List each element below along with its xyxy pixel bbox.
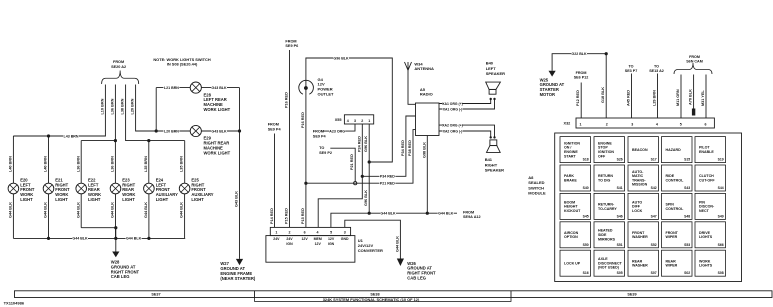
svg-text:BEACON: BEACON <box>632 148 648 152</box>
svg-text:G44 BLK: G44 BLK <box>126 237 142 241</box>
svg-text:L29 BRN: L29 BRN <box>653 90 657 106</box>
wire G43 BLK from lamp E28 <box>201 87 239 89</box>
svg-text:SE13 A2: SE13 A2 <box>649 69 664 73</box>
svg-text:LIGHTS: LIGHTS <box>699 264 713 268</box>
converter U1 body <box>266 236 355 263</box>
wire below lamp E20 <box>12 194 14 239</box>
switch S42 AUTO- MATIC TRANS- MISSION <box>628 165 659 191</box>
svg-text:L36 BRN: L36 BRN <box>111 156 115 172</box>
svg-text:FROM: FROM <box>313 130 324 134</box>
svg-text:SE9 P2: SE9 P2 <box>319 151 332 155</box>
svg-text:G18 BLK: G18 BLK <box>601 87 605 103</box>
svg-text:G44 BLK: G44 BLK <box>180 202 184 218</box>
switch S41 RETURN TO DIG <box>594 165 625 191</box>
svg-text:LOCK: LOCK <box>632 209 643 213</box>
svg-text:X55: X55 <box>335 118 342 122</box>
svg-text:P34 RED: P34 RED <box>401 140 405 156</box>
svg-text:L20 BRN: L20 BRN <box>131 98 135 114</box>
wire M31 YEL to X32 pin 6 <box>705 75 707 119</box>
svg-text:B41: B41 <box>485 157 493 162</box>
brace from S6N CAM harness <box>674 63 712 74</box>
svg-text:KICKOUT: KICKOUT <box>564 209 581 213</box>
lamp E25 RIGHT FRONT AUXILIARY LIGHT <box>179 183 190 194</box>
wire bus L43 BRN <box>13 135 105 137</box>
label A23 ORG <box>329 129 345 133</box>
section bar divider 2 <box>510 291 512 298</box>
svg-text:SE6 P12: SE6 P12 <box>574 75 589 79</box>
junction dot E22/E23 grounds <box>114 226 117 229</box>
svg-text:LEFT: LEFT <box>486 66 497 71</box>
wire L20 BRN (brace wire 4 feed to rear machine lights) <box>136 85 157 132</box>
svg-text:S50: S50 <box>583 243 589 247</box>
svg-text:L21 BRN: L21 BRN <box>164 86 179 90</box>
svg-text:XA2 ORG (+): XA2 ORG (+) <box>442 123 462 127</box>
svg-text:CUT-OFF: CUT-OFF <box>699 178 715 182</box>
svg-text:M31 YEL: M31 YEL <box>701 90 705 106</box>
svg-text:1: 1 <box>275 230 277 234</box>
svg-text:ANTENNA: ANTENNA <box>414 66 434 71</box>
svg-text:S17: S17 <box>651 158 657 162</box>
switch S07 REAR WASHER <box>628 250 659 276</box>
svg-text:XA1 ORG (-): XA1 ORG (-) <box>443 107 463 111</box>
svg-text:S45: S45 <box>583 214 589 218</box>
shield termination blob <box>692 109 695 116</box>
svg-text:G96 BLK: G96 BLK <box>364 136 368 152</box>
svg-text:P16 RED: P16 RED <box>301 112 305 128</box>
svg-text:X32: X32 <box>564 122 571 126</box>
svg-text:SE37: SE37 <box>151 293 160 297</box>
svg-text:SE39: SE39 <box>627 293 636 297</box>
junction dot G96 at G44 bus <box>368 212 371 215</box>
switch S08 WORK LIGHTS <box>695 250 726 276</box>
svg-text:S40: S40 <box>583 186 589 190</box>
svg-text:G22 BLK: G22 BLK <box>571 52 587 56</box>
connector X32 <box>576 118 714 128</box>
switch S02 REAR WIPER <box>662 250 693 276</box>
svg-text:S26: S26 <box>617 158 623 162</box>
brace from SE20 A2 harness <box>102 71 139 85</box>
svg-text:WASHER: WASHER <box>632 235 648 239</box>
svg-text:G96 BLK: G96 BLK <box>333 56 349 60</box>
svg-text:CONTROL: CONTROL <box>666 207 685 211</box>
svg-text:SE9A A12: SE9A A12 <box>463 215 481 219</box>
wire below lamp E23 <box>115 194 117 239</box>
svg-text:S05: S05 <box>617 271 623 275</box>
svg-text:L20 BRN: L20 BRN <box>164 129 179 133</box>
svg-text:CAB LEG: CAB LEG <box>407 276 426 281</box>
svg-text:SE20 A2: SE20 A2 <box>111 65 126 69</box>
svg-text:ENABLE: ENABLE <box>699 150 714 154</box>
svg-text:S51: S51 <box>617 243 623 247</box>
wire P34 RED radio to X55 branch <box>362 116 415 176</box>
svg-text:IN S08 (SE20.44): IN S08 (SE20.44) <box>167 62 198 67</box>
wire L21 BRN riser <box>155 88 157 131</box>
wire A23 ORG from X55 pin 3 <box>323 124 355 131</box>
label XA1 ORG (-) <box>443 107 463 111</box>
svg-text:SPEAKER: SPEAKER <box>485 168 504 173</box>
svg-text:L36 BRN: L36 BRN <box>110 98 114 114</box>
splice open circle <box>354 182 357 185</box>
converter U1 pin strip <box>270 227 350 235</box>
wire XA1 ORG (+) to left speaker <box>439 100 491 104</box>
svg-text:S53: S53 <box>684 243 690 247</box>
label XA2 ORG (+) <box>443 123 463 127</box>
svg-text:BRAKE: BRAKE <box>564 178 577 182</box>
svg-text:P21 RED: P21 RED <box>350 154 354 170</box>
svg-text:2: 2 <box>361 119 363 123</box>
wire lamp E20 feed <box>12 136 14 183</box>
svg-text:P38 RED: P38 RED <box>408 140 412 156</box>
wire L36 BRN (brace wire 2 to lamp E23) <box>114 85 116 184</box>
svg-text:OFF: OFF <box>598 154 606 158</box>
svg-text:S46: S46 <box>617 214 623 218</box>
junction dot L20/L21 <box>155 129 158 132</box>
svg-text:G44 BLK: G44 BLK <box>9 202 13 218</box>
switch S18 IGNITION ON / ENGINE START <box>560 137 591 163</box>
svg-text:S66: S66 <box>718 243 724 247</box>
switch S19 PILOT ENABLE <box>695 137 726 163</box>
switch S17 BEACON <box>628 137 659 163</box>
svg-text:START: START <box>564 154 577 158</box>
svg-text:LIGHT: LIGHT <box>55 197 68 202</box>
wire below lamp E22 <box>80 194 82 228</box>
wire bus 2 (lamps E22/E23) <box>81 140 115 142</box>
svg-text:CONVERTER: CONVERTER <box>358 248 383 253</box>
section bar <box>15 291 773 298</box>
junction dot G96 loop <box>368 160 371 163</box>
svg-text:FROM: FROM <box>268 123 279 127</box>
junction dot bus2 at wire L36 <box>114 139 117 142</box>
svg-text:MIRRORS: MIRRORS <box>598 237 616 241</box>
svg-text:G44 BLK: G44 BLK <box>395 236 399 252</box>
lamp E20 LEFT FRONT WORK LIGHT <box>8 183 19 194</box>
svg-text:G44 BLK: G44 BLK <box>111 202 115 218</box>
svg-text:FROM: FROM <box>576 71 587 75</box>
wire L10 BRN (brace wire 1 to bus L43) <box>13 85 105 137</box>
wire P24 RED from X55 pin 2 to converter pin 4 <box>318 124 362 227</box>
junction dot P24/P34 <box>361 175 364 178</box>
wire P38 RED radio to splice to P16 node <box>306 130 416 184</box>
svg-text:S15: S15 <box>684 158 690 162</box>
wire G44 BLK bus <box>331 213 457 227</box>
svg-text:CAB LEG: CAB LEG <box>111 274 130 279</box>
svg-text:XA1 ORG (+): XA1 ORG (+) <box>442 102 462 106</box>
label XA1 ORG (+) <box>443 101 463 105</box>
wire ground drop to W28 <box>115 228 117 252</box>
ground W25 <box>549 71 556 77</box>
switch S52 FRONT WASHER <box>628 222 659 248</box>
switch S66 DRIVE LIGHTS <box>695 222 726 248</box>
wire G22 BLK to ground W25 <box>552 54 606 71</box>
radio A5 body <box>416 103 440 136</box>
label G44 BLK on ground bus right <box>126 236 142 240</box>
svg-text:L35 BRN: L35 BRN <box>144 156 148 172</box>
svg-text:OUTLET: OUTLET <box>318 92 335 97</box>
speaker B41 <box>490 140 497 146</box>
switch S49 PIN DISCON- NECT <box>695 193 726 219</box>
svg-text:LIGHT: LIGHT <box>191 197 204 202</box>
label G44 BLK bus right <box>438 211 454 215</box>
svg-text:G98 BLK: G98 BLK <box>422 142 426 158</box>
svg-text:12V: 12V <box>328 237 335 241</box>
wire L21 BRN to lamp E28 <box>156 87 190 89</box>
svg-text:WIPER: WIPER <box>666 235 678 239</box>
junction dot ground bus lamp E24 <box>147 237 150 240</box>
wire below lamp E21 <box>48 194 50 239</box>
wire P16 RED outlet to converter pin 6 <box>305 88 307 227</box>
svg-text:G44 BLK: G44 BLK <box>76 202 80 218</box>
svg-text:L40 BRN: L40 BRN <box>9 156 13 172</box>
svg-text:FROM: FROM <box>113 60 124 64</box>
wire G43 BLK down to ground W27 <box>239 88 241 259</box>
svg-text:S44: S44 <box>718 186 724 190</box>
svg-text:P24 RED: P24 RED <box>357 136 361 152</box>
svg-text:S6N CAM: S6N CAM <box>686 59 703 63</box>
svg-text:1: 1 <box>580 122 582 126</box>
svg-text:SE3 P7: SE3 P7 <box>625 69 638 73</box>
svg-text:NECT: NECT <box>699 209 710 213</box>
svg-text:WORK LIGHT: WORK LIGHT <box>204 107 231 112</box>
wire bus G44 BLK (lamp grounds) <box>13 237 185 239</box>
svg-text:3: 3 <box>631 122 633 126</box>
svg-text:S08: S08 <box>718 271 724 275</box>
svg-text:6: 6 <box>304 230 306 234</box>
svg-text:2: 2 <box>606 122 608 126</box>
wire lamp E21 feed <box>48 136 50 183</box>
lamp E22 LEFT REAR WORK LIGHT <box>76 183 87 194</box>
svg-text:S19: S19 <box>718 158 724 162</box>
svg-text:SE9 P4: SE9 P4 <box>268 128 282 132</box>
svg-text:2: 2 <box>289 230 291 234</box>
label G22 BLK <box>571 52 587 56</box>
svg-text:S02: S02 <box>684 271 690 275</box>
label G96 BLK top <box>333 56 349 60</box>
lamp E29 RIGHT REAR MACHINE WORK LIGHT <box>190 125 201 136</box>
svg-text:A23 ORG: A23 ORG <box>329 129 345 133</box>
svg-text:G44 BLK: G44 BLK <box>72 237 88 241</box>
junction dot bus3 at lamp E24 drop <box>147 139 150 142</box>
svg-text:G43 BLK: G43 BLK <box>211 129 227 133</box>
switch module A8 body <box>555 133 742 282</box>
wire A70 BLK shield drain <box>693 75 695 109</box>
wire lamp E22 ground jog <box>81 227 116 229</box>
switch S53 FRONT WIPER <box>662 222 693 248</box>
wire P12 RED to X32 pin 1 <box>580 83 582 119</box>
wire L38 BRN (brace wire 3 to bus) <box>126 85 149 141</box>
svg-text:G44 BLK: G44 BLK <box>438 212 454 216</box>
svg-text:(NOT USED): (NOT USED) <box>598 266 620 270</box>
junction dot bus L43 at lamp E21 drop <box>47 134 50 137</box>
svg-text:WIPER: WIPER <box>666 264 678 268</box>
svg-text:GND: GND <box>341 237 349 241</box>
svg-text:5: 5 <box>330 230 332 234</box>
wire XA2 ORG (+) to right speaker <box>439 125 495 136</box>
svg-text:L40 BRN: L40 BRN <box>44 156 48 172</box>
svg-text:P12 RED: P12 RED <box>576 90 580 106</box>
junction dot G22/G18 <box>605 52 608 55</box>
svg-text:S43: S43 <box>684 186 690 190</box>
label G43 BLK E29 <box>211 129 227 133</box>
svg-text:TX1104986: TX1104986 <box>4 301 25 306</box>
svg-text:L43 BRN: L43 BRN <box>64 134 79 138</box>
lamp E23 RIGHT REAR WORK LIGHT <box>110 183 121 194</box>
svg-text:TO: TO <box>319 146 324 150</box>
svg-text:IGN: IGN <box>328 242 335 246</box>
svg-text:P34 RED: P34 RED <box>380 175 395 179</box>
switch S47 AUTO DIFF LOCK <box>628 193 659 219</box>
svg-text:FROM: FROM <box>689 55 700 59</box>
svg-text:3: 3 <box>344 230 346 234</box>
svg-text:P21 RED: P21 RED <box>380 182 395 186</box>
svg-text:FROM: FROM <box>285 39 296 43</box>
svg-text:S16: S16 <box>583 271 589 275</box>
wire XA2 ORG (-) to right speaker <box>439 131 491 137</box>
wire lamp E24 feed <box>148 141 150 184</box>
title bar <box>255 298 512 302</box>
switch S26 ENGINE STOP IGNITION OFF <box>594 137 625 163</box>
terminal dots right speaker <box>490 136 492 138</box>
svg-text:IGN: IGN <box>286 242 293 246</box>
svg-text:OPTION: OPTION <box>564 235 578 239</box>
ground W28 <box>112 252 119 258</box>
section bar divider 1 <box>254 291 256 298</box>
wire P16 RED from SE9 P6 to converter pin 2 <box>289 50 291 227</box>
label G44 BLK on ground bus left <box>72 236 88 240</box>
svg-text:6: 6 <box>705 122 707 126</box>
svg-text:SE9 P4: SE9 P4 <box>313 135 327 139</box>
svg-text:G44 BLK: G44 BLK <box>144 202 148 218</box>
wire lamp E25 feed <box>184 141 186 184</box>
svg-text:LIGHT: LIGHT <box>88 197 101 202</box>
power outlet G4 <box>299 80 314 94</box>
wire P14 RED to converter pin 1 <box>274 134 276 228</box>
wire L20 BRN to lamp E29 <box>156 130 190 132</box>
wire G18 BLK to X32 pin 2 <box>605 54 607 118</box>
svg-text:G43 BLK: G43 BLK <box>235 191 239 207</box>
svg-text:XA2 ORG (-): XA2 ORG (-) <box>443 129 463 133</box>
svg-text:P15 RED: P15 RED <box>301 208 305 224</box>
label L20 BRN E29 <box>163 129 179 133</box>
svg-text:12V: 12V <box>315 242 322 246</box>
ground W27 <box>236 259 243 265</box>
svg-text:S07: S07 <box>651 271 657 275</box>
svg-text:L38 BRN: L38 BRN <box>121 98 125 114</box>
wire XA1 ORG (-) to left speaker <box>439 100 495 109</box>
svg-text:RADIO: RADIO <box>420 92 433 97</box>
svg-text:(NEAR STARTER): (NEAR STARTER) <box>220 276 256 281</box>
svg-text:MISSION: MISSION <box>632 183 648 187</box>
svg-text:P14 RED: P14 RED <box>270 208 274 224</box>
svg-text:A45 RED: A45 RED <box>627 90 631 106</box>
junction dot ground bus lamp E21 <box>47 237 50 240</box>
svg-text:S52: S52 <box>651 243 657 247</box>
switch S16 LOCK UP <box>560 250 591 276</box>
terminal dots left speaker <box>490 98 492 100</box>
switch S51 HEATED SIDE MIRRORS <box>594 222 625 248</box>
wire below lamp E24 <box>148 194 150 239</box>
wire L29 BRN to X32 pin 4 <box>657 74 659 119</box>
svg-text:3: 3 <box>354 119 356 123</box>
svg-text:4: 4 <box>347 119 349 123</box>
wire G98 BLK radio ground <box>426 136 428 214</box>
svg-text:L10 BRN: L10 BRN <box>100 98 104 114</box>
switch S40 PARK BRAKE <box>560 165 591 191</box>
lamp E21 RIGHT FRONT WORK LIGHT <box>43 183 54 194</box>
svg-text:4: 4 <box>656 122 658 126</box>
svg-text:S47: S47 <box>651 214 657 218</box>
svg-text:12V: 12V <box>301 237 308 241</box>
svg-text:HAZARD: HAZARD <box>666 148 682 152</box>
label XA2 ORG (-) <box>443 129 463 133</box>
ground W26 <box>397 259 404 267</box>
svg-text:24V: 24V <box>286 237 293 241</box>
speaker B40 <box>489 89 496 94</box>
switch S46 RETURN- TO-CARRY <box>594 193 625 219</box>
switch S43 RIDE CONTROL <box>662 165 693 191</box>
svg-text:LIGHT: LIGHT <box>122 197 135 202</box>
svg-text:SPEAKER: SPEAKER <box>486 71 505 76</box>
svg-text:RIGHT: RIGHT <box>485 162 498 167</box>
wire lamp E22 feed <box>80 141 82 184</box>
svg-text:G96 BLK: G96 BLK <box>364 190 368 206</box>
svg-text:L35 BRN: L35 BRN <box>180 156 184 172</box>
wire M11 GRN to X32 pin 5 <box>680 75 682 119</box>
switch S45 BOOM HEIGHT KICKOUT <box>560 193 591 219</box>
svg-text:TO DIG: TO DIG <box>598 178 611 182</box>
svg-text:TO: TO <box>628 65 633 69</box>
antenna W34 <box>405 62 412 70</box>
svg-text:24V: 24V <box>273 237 280 241</box>
svg-text:SE9 P6: SE9 P6 <box>285 44 298 48</box>
svg-text:MEM: MEM <box>314 237 322 241</box>
svg-text:S49: S49 <box>718 214 724 218</box>
label L21 BRN <box>163 85 179 89</box>
svg-text:LIGHT: LIGHT <box>156 197 169 202</box>
svg-text:5: 5 <box>680 122 682 126</box>
svg-text:WASHER: WASHER <box>632 264 648 268</box>
svg-text:TO-CARRY: TO-CARRY <box>598 207 617 211</box>
label G43 BLK E28 <box>211 85 227 89</box>
label L43 BRN <box>63 134 79 138</box>
svg-text:MODULE: MODULE <box>528 191 546 196</box>
svg-text:CONTROL: CONTROL <box>666 178 685 182</box>
wire A45 RED to X32 pin 3 <box>631 74 633 119</box>
switch S44 CLUTCH CUT-OFF <box>695 165 726 191</box>
junction dot G43 wires <box>238 129 241 132</box>
svg-text:324K SYSTEM FUNCTIONAL SCHEMAT: 324K SYSTEM FUNCTIONAL SCHEMATIC (10 OF … <box>323 297 420 302</box>
svg-text:WORK LIGHT: WORK LIGHT <box>204 150 231 155</box>
svg-text:P15 RED: P15 RED <box>285 208 289 224</box>
svg-text:P16 RED: P16 RED <box>285 92 289 108</box>
label P34 RED horizontal <box>379 174 395 178</box>
svg-text:LOCK UP: LOCK UP <box>564 261 581 265</box>
connector X55 <box>344 115 373 124</box>
junction dot P16/P38 node <box>304 182 307 185</box>
label P21 RED horizontal <box>379 181 395 185</box>
wire G44 BLK converter pin3 to ground W26 <box>345 220 401 258</box>
label G44 BLK bus left <box>380 211 396 215</box>
junction dot G98 at G44 bus <box>426 212 429 215</box>
switch S50 AIRCON OPTION <box>560 222 591 248</box>
junction dot ground bus at W28 drop <box>114 237 117 240</box>
svg-text:G43 BLK: G43 BLK <box>211 86 227 90</box>
wire bus 3 (lamps E24/E25) <box>149 140 185 142</box>
switch S48 SPIN CONTROL <box>662 193 693 219</box>
svg-text:4: 4 <box>317 230 319 234</box>
svg-text:S41: S41 <box>617 186 623 190</box>
svg-text:G44 BLK: G44 BLK <box>44 202 48 218</box>
svg-text:G44 BLK: G44 BLK <box>380 212 396 216</box>
